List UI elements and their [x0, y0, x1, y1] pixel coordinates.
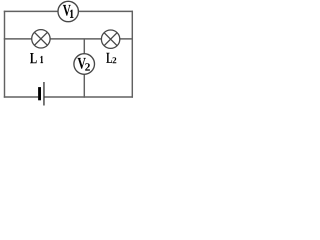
- label L2: [106, 53, 116, 64]
- lamp L1: [32, 30, 50, 48]
- voltmeter V2: [74, 54, 95, 75]
- wire: bottom left segment to battery: [4, 96, 38, 98]
- battery: short thick negative plate: [38, 87, 41, 100]
- wire: middle branch with lamps: [4, 38, 133, 40]
- lamp L2: [101, 30, 119, 48]
- wire: top side: [4, 10, 133, 12]
- battery: long thin positive plate: [43, 82, 44, 106]
- wire: voltmeter V2 down to bottom wire: [83, 74, 85, 98]
- wire: bottom right segment from battery: [44, 96, 133, 98]
- voltmeter V1: [58, 1, 78, 21]
- label L1: [30, 53, 43, 63]
- wire: right side: [131, 11, 133, 98]
- wire: left side: [4, 11, 6, 98]
- background: [0, 0, 137, 107]
- wire: junction drop to voltmeter V2: [83, 39, 85, 54]
